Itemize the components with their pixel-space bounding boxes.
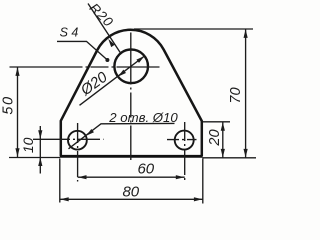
small hole right O10: [175, 131, 194, 150]
extension line 20 top: [203, 121, 230, 123]
dimension 70 line: [245, 29, 247, 158]
right hole vertical centerline / 60 extension: [184, 122, 186, 182]
extension line 80 left: [59, 159, 61, 203]
svg-text:20: 20: [207, 129, 223, 146]
svg-text:R20: R20: [87, 0, 117, 30]
leader R20: [88, 4, 121, 54]
hole big circle O20: [114, 50, 148, 84]
extension line baseline right: [203, 157, 257, 159]
S4 leader dot: [105, 58, 109, 62]
centerline horizontal big circle + 50 extension: [10, 66, 160, 68]
small hole left O10: [68, 131, 87, 150]
left hole horizontal centerline / 10 extension: [33, 138, 104, 140]
dimension 10 line: [39, 126, 41, 174]
extension line top (70): [134, 28, 253, 30]
svg-text:70: 70: [228, 87, 244, 103]
svg-text:80: 80: [122, 183, 139, 200]
extension line 80 right: [202, 159, 204, 204]
svg-text:10: 10: [20, 137, 36, 153]
dimension 20 line: [222, 122, 224, 158]
centerline vertical big circle: [130, 33, 132, 161]
dimension 60 line: [78, 176, 185, 178]
right hole horizontal centerline: [167, 139, 197, 141]
dimension 50 line: [17, 67, 19, 157]
leader S4 with shelf: [57, 41, 107, 60]
plate outline: [61, 30, 202, 157]
svg-text:50: 50: [1, 95, 17, 114]
extension line baseline left: [9, 157, 60, 159]
diameter O20 leader: [80, 56, 145, 105]
svg-text:2 отв. Ø10: 2 отв. Ø10: [108, 110, 178, 125]
svg-text:60: 60: [137, 160, 154, 177]
svg-text:S 4: S 4: [60, 26, 79, 40]
dimension 80 line: [60, 198, 203, 200]
plate base edge: [60, 155, 203, 158]
left hole vertical centerline / 60 extension: [77, 123, 79, 182]
leader 2 holes O10: [69, 123, 175, 148]
